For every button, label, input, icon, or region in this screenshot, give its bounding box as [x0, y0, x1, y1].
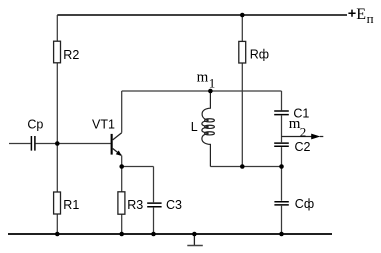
svg-text:R2: R2 — [63, 48, 79, 62]
svg-text:VT1: VT1 — [92, 118, 115, 132]
svg-text:L: L — [191, 120, 198, 134]
svg-text:Cp: Cp — [27, 118, 43, 132]
svg-text:R1: R1 — [63, 198, 79, 212]
svg-text:E: E — [356, 6, 366, 23]
svg-text:Rф: Rф — [250, 48, 269, 62]
svg-text:m: m — [197, 69, 209, 85]
svg-text:Cф: Cф — [295, 197, 314, 211]
svg-text:1: 1 — [209, 76, 216, 91]
svg-text:R3: R3 — [127, 198, 143, 212]
svg-text:C2: C2 — [295, 140, 311, 154]
svg-text:2: 2 — [300, 124, 307, 139]
svg-text:п: п — [367, 11, 374, 26]
svg-text:C3: C3 — [166, 198, 182, 212]
